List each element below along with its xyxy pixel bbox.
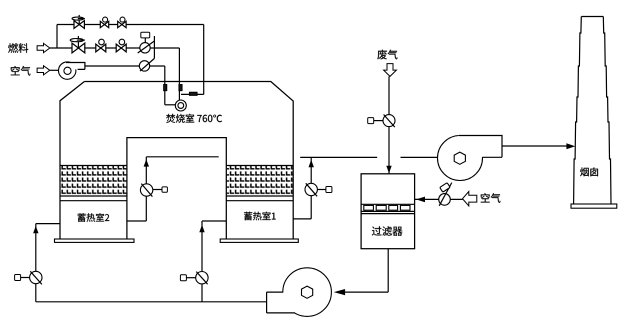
blower B2 exhaust fan <box>438 136 483 181</box>
wire chamber2 right port <box>127 220 146 222</box>
wire upper line drop <box>203 25 205 95</box>
chamber 2 base flange <box>55 239 135 242</box>
valve BV1 ball <box>100 21 108 27</box>
wire filter downcomer <box>387 249 389 292</box>
wire manifold M2b <box>401 156 438 158</box>
checker band fill chamber 1 <box>227 166 293 196</box>
igniter bar mark <box>190 92 198 95</box>
wire B2 outlet to stack <box>502 145 567 147</box>
arrow into chamber1 <box>199 225 204 232</box>
blower B1 air fan <box>58 62 75 79</box>
wire bottom manifold <box>36 301 267 303</box>
checker band borders chamber 1 <box>226 166 293 201</box>
furnace combustion chamber outline <box>60 82 293 240</box>
wire valve V2 riser <box>145 157 147 221</box>
wire upper line elbow to burner <box>181 93 204 95</box>
block arrow air inlet <box>37 66 50 75</box>
wire chamber2 left port <box>36 223 60 225</box>
block arrow air right <box>463 192 477 206</box>
label waste gas <box>377 50 397 60</box>
burner U1 <box>175 100 186 111</box>
wire air line elbow to burner <box>165 104 176 106</box>
valve BV3 ball <box>96 44 106 52</box>
wire valve V1 riser <box>35 224 37 302</box>
valve V2 <box>140 184 152 196</box>
filter elements band <box>361 204 415 213</box>
wire waste gas drop <box>388 76 390 173</box>
valve BV4 ball <box>116 44 126 52</box>
valve V1 <box>30 271 42 283</box>
arrow into filter top <box>386 166 391 173</box>
wire B3 inlet <box>345 291 388 293</box>
chimney base flange <box>571 204 617 208</box>
chimney stack <box>574 17 611 205</box>
label chamber 1 <box>244 212 276 221</box>
furnace inner arch <box>127 138 226 239</box>
damper D2 <box>139 61 149 71</box>
arrow into filter side <box>416 197 425 203</box>
blower B3 circulation fan <box>283 268 332 317</box>
wire pilot tap <box>153 36 155 59</box>
wire fuel line drop to burner <box>178 48 180 100</box>
valve HV1 gate with handwheel <box>74 21 84 29</box>
wire air inlet to blower <box>50 69 59 71</box>
wire upper fuel line <box>57 24 204 26</box>
valve HV2 gate with handwheel <box>72 43 85 53</box>
wire fuel branch riser <box>56 25 58 49</box>
label air right <box>481 193 501 203</box>
wire air to filter <box>415 198 463 200</box>
label filter <box>372 226 403 236</box>
arrow into B3 <box>334 289 345 295</box>
arrow above V4 <box>309 160 314 167</box>
valve V3 <box>196 272 208 284</box>
arrow into chamber2 <box>33 226 38 233</box>
burner nozzle mark right <box>179 85 182 91</box>
block arrow fuel inlet <box>37 43 50 52</box>
damper V6 <box>439 194 451 206</box>
filter box <box>361 174 415 249</box>
checker band borders chamber 2 <box>60 166 127 201</box>
block arrow waste gas <box>384 64 397 77</box>
burner nozzle mark left <box>164 85 167 91</box>
wire air line drop <box>164 66 166 105</box>
label chamber 2 <box>78 213 110 222</box>
label fuel <box>8 43 28 53</box>
wire valve V4 riser <box>310 157 312 219</box>
wire valve V3 riser <box>201 221 203 302</box>
chamber 1 base flange <box>220 239 298 242</box>
valve V4 <box>305 183 317 195</box>
checker band fill chamber 2 <box>61 166 127 196</box>
label combustion chamber 760C <box>166 114 222 123</box>
wire manifold M2a <box>300 156 377 158</box>
arrow into stack <box>566 143 575 149</box>
wire chamber1 left port <box>202 220 226 222</box>
arrow above V2 <box>144 159 149 166</box>
wire manifold M1 <box>146 156 218 158</box>
label chimney <box>580 167 598 176</box>
wire chamber1 right port <box>293 218 311 220</box>
wire fuel supply line <box>50 47 180 49</box>
control valve D1 <box>140 43 150 53</box>
valve BV2 ball <box>118 21 126 27</box>
valve V5 <box>383 115 395 127</box>
wire air line blower to furnace <box>85 65 165 67</box>
label air left <box>11 66 31 76</box>
